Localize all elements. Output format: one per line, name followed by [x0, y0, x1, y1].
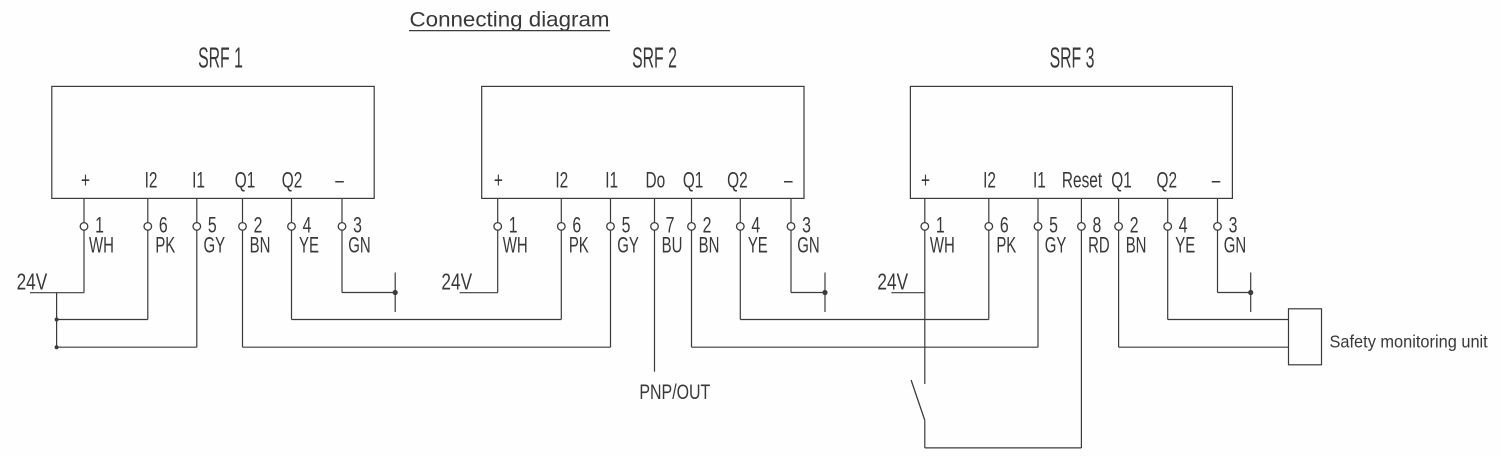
- wire SRF1 WH drop: [83, 230, 85, 293]
- wire SRF1 BN drop: [242, 230, 244, 347]
- svg-text:Q2: Q2: [727, 169, 748, 193]
- svg-text:I2: I2: [983, 169, 996, 193]
- pin stub wire SRF3 pin 1: [924, 198, 926, 222]
- switch S1 blade (reset pushbutton): [911, 380, 925, 420]
- svg-text:GN: GN: [1224, 233, 1246, 258]
- svg-text:I1: I1: [1033, 169, 1046, 193]
- svg-text:Connecting diagram: Connecting diagram: [409, 7, 609, 32]
- pin terminal circle SRF1 pin 3: [338, 223, 346, 231]
- pin stub wire SRF2 pin 7: [654, 198, 656, 222]
- pin terminal circle SRF2 pin 4: [737, 223, 745, 231]
- svg-text:BN: BN: [250, 233, 271, 258]
- pin terminal circle SRF1 pin 5: [193, 223, 201, 231]
- svg-text:–: –: [1212, 169, 1221, 193]
- wire SRF1 GN to 0V tap: [342, 292, 395, 294]
- pin stub wire SRF2 pin 6: [560, 198, 562, 222]
- pin terminal circle SRF3 pin 3: [1214, 223, 1222, 231]
- wire 24V down to reset switch: [924, 293, 926, 384]
- pin terminal circle SRF2 pin 7: [651, 223, 659, 231]
- svg-text:GY: GY: [617, 233, 639, 258]
- pin stub wire SRF3 pin 8: [1080, 198, 1082, 222]
- svg-text:I2: I2: [145, 169, 158, 193]
- pin stub wire SRF3 pin 3: [1217, 198, 1219, 222]
- pin terminal circle SRF3 pin 2: [1115, 223, 1123, 231]
- pin stub wire SRF1 pin 5: [196, 198, 198, 222]
- svg-text:PNP/OUT: PNP/OUT: [639, 380, 710, 404]
- pin terminal circle SRF1 pin 6: [144, 223, 152, 231]
- pin terminal circle SRF3 pin 5: [1034, 223, 1042, 231]
- junction dot SRF3 0V: [1248, 290, 1253, 295]
- wire SRF3 BN drop: [1118, 230, 1120, 347]
- wire SRF1 YE drop: [291, 230, 293, 319]
- wire bus SRF1 Q1 to SRF2 I1: [243, 346, 611, 348]
- pin stub wire SRF1 pin 6: [147, 198, 149, 222]
- svg-text:YE: YE: [1175, 233, 1195, 258]
- svg-text:BN: BN: [1126, 233, 1147, 258]
- junction dot SRF1 I2 branch: [55, 318, 59, 322]
- wire bus SRF2 Q1 to SRF3 I1: [692, 346, 1039, 348]
- pin terminal circle SRF2 pin 6: [558, 223, 566, 231]
- pin stub wire SRF2 pin 3: [790, 198, 792, 222]
- svg-text:YE: YE: [299, 233, 319, 258]
- svg-text:WH: WH: [930, 233, 955, 258]
- svg-text:GN: GN: [348, 233, 370, 258]
- wire 24V to SRF1 pin 1: [30, 292, 84, 294]
- pin terminal circle SRF3 pin 4: [1164, 223, 1172, 231]
- svg-text:Q2: Q2: [1157, 169, 1178, 193]
- svg-text:BU: BU: [662, 233, 683, 258]
- wire 24V to SRF1 I1: [57, 346, 197, 348]
- wire SRF2 BU drop: [654, 230, 656, 372]
- svg-text:–: –: [784, 169, 793, 193]
- svg-text:24V: 24V: [441, 270, 472, 295]
- pin stub wire SRF2 pin 1: [497, 198, 499, 222]
- wire SRF3 WH drop: [924, 230, 926, 293]
- switch S1 lower contact: [924, 420, 926, 448]
- wire SRF1 GN drop: [341, 230, 343, 292]
- wire SRF1 PK drop: [147, 230, 149, 319]
- svg-text:24V: 24V: [877, 270, 908, 295]
- safety monitoring unit box: [1289, 309, 1322, 365]
- pin stub wire SRF3 pin 5: [1037, 198, 1039, 222]
- pin stub wire SRF1 pin 3: [341, 198, 343, 222]
- pin terminal circle SRF2 pin 5: [607, 223, 615, 231]
- svg-text:Do: Do: [645, 169, 665, 193]
- svg-text:+: +: [494, 169, 503, 193]
- 0V tap bar (SRF2): [824, 273, 826, 313]
- svg-text:Reset: Reset: [1062, 169, 1103, 193]
- wire SRF3 RD drop: [1080, 230, 1082, 448]
- wire SRF3 Q2 to safety unit: [1168, 319, 1289, 321]
- svg-text:SRF 3: SRF 3: [1050, 42, 1095, 74]
- pin terminal circle SRF3 pin 6: [985, 223, 993, 231]
- svg-text:PK: PK: [569, 233, 589, 258]
- pin stub wire SRF3 pin 6: [988, 198, 990, 222]
- wire SRF2 PK drop: [560, 230, 562, 319]
- wire SRF2 YE drop: [739, 230, 741, 319]
- svg-text:SRF 1: SRF 1: [198, 42, 243, 74]
- wire SRF3 PK drop: [988, 230, 990, 319]
- junction dot SRF1 0V: [393, 290, 398, 295]
- svg-text:+: +: [921, 169, 930, 193]
- wire SRF2 WH drop: [497, 230, 499, 293]
- wire SRF3 GY drop: [1037, 230, 1039, 347]
- wire switch to SRF3 Reset (bottom run): [925, 447, 1082, 449]
- wire bus SRF1 Q2 to SRF2 I2: [292, 319, 562, 321]
- svg-text:+: +: [81, 169, 90, 193]
- pin stub wire SRF2 pin 5: [610, 198, 612, 222]
- svg-text:Q2: Q2: [282, 169, 303, 193]
- wire 24V to SRF3 pin 1: [891, 292, 924, 294]
- svg-text:–: –: [335, 169, 344, 193]
- 0V tap bar (SRF1): [394, 273, 396, 313]
- svg-text:I1: I1: [192, 169, 205, 193]
- pin stub wire SRF3 pin 4: [1167, 198, 1169, 222]
- SRF 2 unit box U2: [482, 86, 804, 198]
- title: Connecting diagram: [409, 7, 610, 32]
- wire bus SRF2 Q2 to SRF3 I2: [740, 319, 989, 321]
- svg-text:Q1: Q1: [235, 169, 256, 193]
- pin terminal circle SRF3 pin 8: [1078, 223, 1086, 231]
- svg-text:Safety monitoring unit: Safety monitoring unit: [1330, 331, 1488, 352]
- pin terminal circle SRF1 pin 1: [80, 223, 88, 231]
- svg-text:GN: GN: [797, 233, 819, 258]
- SRF 1 unit box U1: [52, 86, 374, 198]
- wire SRF2 BN drop: [691, 230, 693, 347]
- svg-text:BN: BN: [699, 233, 720, 258]
- pin terminal circle SRF2 pin 2: [688, 223, 696, 231]
- pin stub wire SRF1 pin 2: [242, 198, 244, 222]
- wire 24V to SRF1 I2: [57, 319, 148, 321]
- 0V tap bar (SRF3): [1250, 273, 1252, 313]
- svg-text:I1: I1: [605, 169, 618, 193]
- pin terminal circle SRF3 pin 1: [921, 223, 929, 231]
- wire SRF2 GY drop: [610, 230, 612, 347]
- pin stub wire SRF1 pin 4: [291, 198, 293, 222]
- wire 24V branch drop (SRF1 inputs): [56, 293, 58, 348]
- junction dot SRF2 0V: [822, 290, 827, 295]
- svg-text:Q1: Q1: [683, 169, 704, 193]
- wire SRF3 Q1 to safety unit: [1119, 346, 1289, 348]
- wire SRF2 GN drop: [790, 230, 792, 292]
- pin terminal circle SRF1 pin 2: [239, 223, 247, 231]
- svg-text:WH: WH: [503, 233, 528, 258]
- svg-text:PK: PK: [996, 233, 1016, 258]
- svg-text:YE: YE: [748, 233, 768, 258]
- svg-text:Q1: Q1: [1111, 169, 1132, 193]
- pin terminal circle SRF1 pin 4: [288, 223, 296, 231]
- pin terminal circle SRF2 pin 3: [787, 223, 795, 231]
- wire SRF1 GY drop: [196, 230, 198, 347]
- svg-text:24V: 24V: [17, 270, 48, 295]
- svg-text:SRF 2: SRF 2: [632, 42, 677, 74]
- svg-text:PK: PK: [155, 233, 175, 258]
- junction dot SRF1 I1 branch: [55, 345, 59, 349]
- pin terminal circle SRF2 pin 1: [494, 223, 502, 231]
- svg-text:GY: GY: [1045, 233, 1067, 258]
- wire SRF3 GN to 0V tap: [1218, 292, 1251, 294]
- wire 24V to SRF2 pin 1: [460, 292, 498, 294]
- pin stub wire SRF2 pin 4: [739, 198, 741, 222]
- svg-text:RD: RD: [1088, 233, 1110, 258]
- wire SRF3 YE drop: [1167, 230, 1169, 319]
- pin stub wire SRF3 pin 2: [1118, 198, 1120, 222]
- pin stub wire SRF1 pin 1: [83, 198, 85, 222]
- wire SRF3 GN drop: [1217, 230, 1219, 292]
- svg-text:GY: GY: [203, 233, 225, 258]
- wire SRF2 GN to 0V tap: [791, 292, 825, 294]
- svg-text:WH: WH: [89, 233, 114, 258]
- svg-text:I2: I2: [555, 169, 568, 193]
- pin stub wire SRF2 pin 2: [691, 198, 693, 222]
- SRF 3 unit box U3: [910, 86, 1232, 198]
